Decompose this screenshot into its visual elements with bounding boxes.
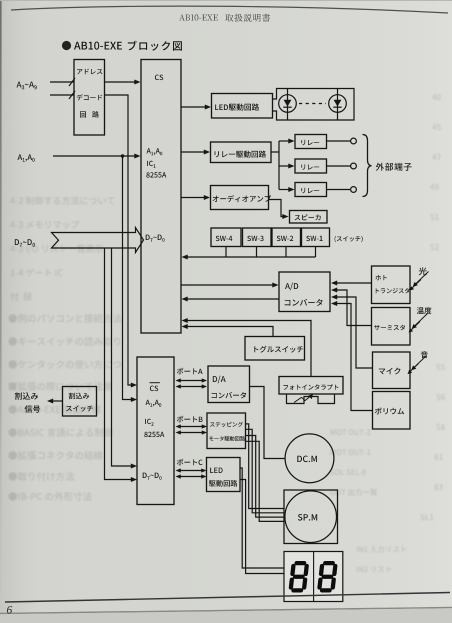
- port C bus (double line with arrows): [180, 470, 202, 472]
- switch box SW-2: [272, 228, 301, 247]
- IC2 name IC2 8255A: [145, 419, 153, 426]
- speaker box スピーカ: [290, 211, 328, 224]
- volume box ポリウム: [373, 392, 411, 430]
- wire D-bus branch 2 down to IC2: [105, 248, 134, 480]
- audio amp box オーディオアンプ: [211, 186, 269, 210]
- label 割込み信号: [15, 392, 38, 399]
- wire IC1 to A/D: [181, 284, 274, 286]
- LED lamp 1: [287, 89, 289, 121]
- wire SW-1 stub: [315, 247, 317, 258]
- label 温度 with input arrows: [417, 307, 432, 314]
- header rule: [11, 6, 448, 13]
- label 音 with input arrows: [421, 351, 428, 358]
- wire A1,A0 to IC1: [53, 155, 136, 157]
- label ポートC: [177, 459, 203, 466]
- toggle switch box トグルスイッチ: [245, 337, 305, 361]
- wire A/D to IC1: [186, 298, 279, 300]
- wire IC1 to relay driver: [181, 151, 206, 153]
- label A3~A9: [17, 82, 37, 90]
- label 光 with input arrows: [419, 267, 427, 275]
- wire to relay 3: [279, 189, 290, 191]
- IC2 pin label A1,A0: [146, 400, 162, 407]
- terminal circle 1: [351, 138, 357, 144]
- wire stepper bundle 3: [246, 436, 284, 518]
- microphone box マイク: [373, 352, 411, 389]
- wire to relay 1: [279, 140, 290, 142]
- dashed wire between LEDs: [299, 103, 326, 105]
- data bus fat arrow D7~D0 into IC1: [52, 228, 144, 253]
- D/A converter box D/Aコンバータ: [208, 366, 250, 403]
- IC1 name IC1 8255A: [147, 161, 155, 168]
- label 外部端子: [376, 163, 412, 171]
- wire stepper bundle 1: [246, 424, 284, 509]
- header title AB10-EXE 取扱説明書: [179, 14, 218, 20]
- thermistor box サーミスタ: [372, 308, 411, 346]
- A/D converter box A/Dコンバータ: [279, 272, 330, 312]
- photo-interrupter zigzag arrow: [294, 396, 311, 403]
- interrupt switch box 割込みスイッチ: [63, 387, 97, 417]
- wire interrupt switch arrow out: [51, 400, 63, 402]
- wire to relay 2: [279, 165, 290, 167]
- address decoder box アドレス デコード 回路: [74, 60, 105, 136]
- wire SW-2 stub: [285, 247, 287, 258]
- wire LED loop: [273, 89, 355, 121]
- brace for external terminals: [363, 135, 372, 197]
- label D7~D0 (external): [15, 239, 35, 247]
- wire microphone to A/D: [336, 297, 373, 368]
- wire relay3 to terminal: [327, 189, 351, 191]
- relay driver box リレー駆動回路: [211, 142, 272, 163]
- label ポートB: [177, 416, 203, 423]
- wire D-bus branch 1 down to IC2: [112, 248, 134, 466]
- label (スイッチ): [335, 236, 363, 242]
- LED driver box LED駆動回路: [212, 94, 273, 119]
- wire switch bus to IC1: [186, 256, 316, 258]
- switch box SW-4: [211, 228, 241, 247]
- label ポートA: [177, 368, 203, 375]
- switch box SW-1: [302, 228, 330, 247]
- wire IC1 to audio amp: [181, 197, 206, 199]
- phototransistor box ホトトランジスタ: [372, 266, 411, 304]
- relay box 1 リレー: [295, 135, 327, 149]
- switch box SW-3: [243, 228, 272, 247]
- LED lamp 2: [337, 89, 339, 121]
- IC1 pin label D7~D0: [146, 235, 165, 242]
- wire decoder to IC2 CS (down left column): [105, 95, 134, 385]
- wire decoder to IC1 CS: [105, 81, 137, 83]
- wire relay driver splitter: [271, 151, 279, 153]
- wire D/A to DC motor: [250, 387, 286, 459]
- IC2 pin label CS(bar): [150, 386, 158, 392]
- relay box 3 リレー: [295, 183, 327, 197]
- port B bus (double line with arrows): [180, 426, 203, 428]
- wire phototransistor to A/D: [336, 282, 372, 284]
- IC2 box: [137, 357, 174, 505]
- wire LED driver 2 to display 1: [240, 468, 284, 568]
- top edge faint line: [0, 0, 452, 1]
- wire LED driver 2 to display 2: [240, 480, 284, 574]
- left page-edge line: [0, 0, 2, 623]
- junction dot A-line: [121, 154, 125, 158]
- wire thermistor to A/D: [336, 290, 372, 326]
- terminal circle 3: [351, 187, 357, 193]
- wire A-line branch down to IC2: [123, 156, 134, 400]
- wire A3~A9 to decoder (lower): [50, 94, 74, 96]
- section title ●AB10-EXE ブロック図: [62, 41, 71, 50]
- wire audio amp to speaker: [269, 200, 285, 217]
- wire SW-4 stub: [225, 247, 227, 258]
- footer rule: [5, 593, 450, 603]
- LED driver box 2 LED駆動回路: [207, 458, 241, 492]
- digit 8 (right): [317, 561, 338, 593]
- wire A3~A9 to decoder (upper): [50, 81, 74, 83]
- IC1 pin label A1,A0: [147, 148, 163, 155]
- relay box 2 リレー: [295, 159, 327, 173]
- photo-interrupter feet: [287, 394, 335, 404]
- wire volume to A/D: [336, 304, 373, 411]
- wire stepper bundle 4: [246, 441, 284, 521]
- display box (two digits): [284, 552, 343, 602]
- digit 8 (left): [288, 561, 309, 593]
- stepper driver box ステッピングモータ駆動回路: [207, 413, 246, 449]
- IC1 pin label CS: [155, 75, 163, 81]
- label A1,A0 (external): [18, 154, 35, 161]
- wire IC1 to LED driver: [181, 106, 207, 108]
- terminal circle 2: [351, 163, 357, 169]
- wire SW-3 stub: [256, 247, 258, 258]
- faint bleed-through text (reverse page): [9, 94, 445, 572]
- svg-text:6: 6: [7, 605, 13, 617]
- port A bus (double line with arrows): [180, 380, 203, 382]
- photo-interrupter box フォトインタラプト: [279, 377, 343, 395]
- bottom edge shadow line: [0, 608, 452, 614]
- IC1 box: [141, 60, 181, 334]
- stepper motor box SP.M: [284, 490, 338, 544]
- wire stepper bundle 2: [246, 429, 284, 513]
- wire photo-interrupter to IC1: [186, 321, 311, 377]
- DC motor circle DC.M: [285, 434, 334, 483]
- IC2 pin label D7~D0: [143, 473, 162, 480]
- wire relay2 to terminal: [327, 165, 351, 167]
- wire toggle switch to IC1: [186, 327, 273, 337]
- wire relay1 to terminal: [327, 140, 351, 142]
